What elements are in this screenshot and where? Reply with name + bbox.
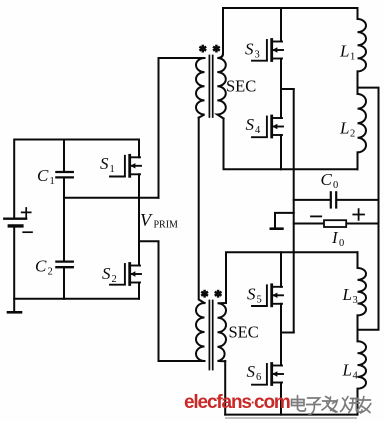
- wire S5 drain to lower rail: [280, 252, 282, 286]
- wire S5 source to S6 drain: [280, 304, 282, 366]
- wire bottom rail ghost shadow: [225, 417, 357, 419]
- svg-text:0: 0: [333, 180, 338, 191]
- transistor S5: [252, 285, 283, 306]
- svg-text:2: 2: [350, 129, 355, 140]
- transistor S6: [252, 364, 283, 385]
- wire S4 drain: [280, 89, 282, 118]
- transformer T2 core: [209, 301, 212, 370]
- wire L4 bottom to bottom rail: [357, 389, 359, 415]
- transformer T1 primary winding: [196, 58, 205, 118]
- svg-text:4: 4: [255, 125, 261, 136]
- svg-text:2: 2: [112, 274, 117, 285]
- svg-text:5: 5: [257, 295, 262, 306]
- label plus output: [353, 209, 364, 220]
- svg-text:V: V: [140, 210, 153, 230]
- transformer T2 primary winding: [196, 303, 204, 361]
- svg-text:C: C: [321, 170, 333, 189]
- svg-text:S: S: [247, 285, 256, 304]
- wire T1 secondary bottom lead and mid rail: [224, 119, 358, 170]
- wire node to T1 primary top: [159, 58, 205, 198]
- transistor S4: [252, 116, 283, 137]
- battery Vin: [4, 208, 32, 232]
- svg-text:L: L: [339, 119, 349, 138]
- wire S1 source to node: [138, 174, 140, 197]
- wire L2 bottom to mid rail: [357, 152, 359, 169]
- wire battery plus lead and top-left rail: [14, 140, 139, 217]
- wire S5-S6 midpoint to center node: [281, 332, 294, 334]
- wire battery minus lead and bottom-left rail: [14, 228, 139, 299]
- svg-text:S: S: [246, 115, 255, 134]
- svg-text:L: L: [342, 285, 352, 304]
- wire L3 to L4: [357, 315, 359, 341]
- transformer T2 secondary winding: [218, 303, 227, 361]
- wire T2 primary bottom lead: [159, 360, 205, 362]
- capacitor C2: [56, 262, 72, 299]
- svg-text:3: 3: [255, 50, 260, 61]
- wire bottom rail: [225, 414, 357, 416]
- label minus output: [311, 215, 321, 217]
- transistor S1: [110, 155, 141, 176]
- inductor L4: [358, 341, 367, 388]
- svg-text:S: S: [102, 264, 111, 283]
- node VPRIM wire: [64, 197, 159, 199]
- ground terminal bottom-left: [8, 299, 21, 313]
- svg-text:S: S: [245, 40, 254, 59]
- wire L1 to L2: [357, 71, 359, 94]
- wire S2 source to bottom rail: [138, 283, 140, 299]
- inductor L1: [358, 8, 367, 71]
- wire right output rail: [358, 88, 379, 330]
- wire C1 to C2: [63, 198, 65, 261]
- svg-text:C: C: [37, 166, 49, 185]
- wire center vertical: [293, 89, 295, 333]
- svg-text:SEC: SEC: [226, 77, 256, 96]
- svg-text:1: 1: [350, 52, 355, 63]
- svg-text:3: 3: [353, 295, 358, 306]
- svg-text:2: 2: [48, 267, 53, 278]
- transistor S3: [252, 40, 283, 61]
- current source I0 box: [324, 220, 346, 227]
- capacitor C1: [56, 140, 72, 198]
- svg-text:0: 0: [339, 238, 344, 249]
- wire T1 secondary top lead and top rail: [223, 8, 358, 54]
- transformer T1 secondary winding: [217, 54, 225, 118]
- transformer T1 polarity dots: [199, 45, 206, 53]
- svg-text:L: L: [342, 361, 352, 380]
- wire T2 secondary top lead and lower rail: [226, 252, 358, 303]
- inductor L3: [358, 252, 367, 315]
- ground symbol output: [271, 213, 294, 229]
- svg-text:S: S: [247, 362, 256, 381]
- transformer T1 core: [209, 56, 212, 118]
- svg-text:4: 4: [353, 371, 359, 382]
- svg-text:S: S: [100, 154, 109, 173]
- wire T2 secondary bottom lead: [224, 361, 226, 415]
- svg-text:elecfans·com: elecfans·com: [184, 392, 290, 413]
- transformer T2 polarity dots: [201, 290, 208, 298]
- transistor S2: [110, 264, 141, 285]
- svg-text:6: 6: [256, 372, 261, 383]
- svg-text:I: I: [331, 228, 339, 247]
- svg-text:PRIM: PRIM: [154, 220, 179, 231]
- watermark chinese characters: [292, 396, 371, 415]
- wire node down to S2 drain: [138, 198, 140, 266]
- svg-text:1: 1: [110, 164, 115, 175]
- wire S3-S4 midpoint to center node: [281, 88, 294, 90]
- wire S3 drain to top rail: [280, 8, 282, 42]
- wire S4 source to mid rail: [280, 135, 282, 169]
- svg-text:1: 1: [50, 176, 55, 187]
- current source I0 wire: [294, 223, 379, 225]
- wire VPRIM branch to transformer T2 primary: [139, 241, 159, 361]
- wire S6 source to bottom rail: [280, 383, 282, 415]
- svg-text:L: L: [339, 42, 349, 61]
- wire T1 primary bottom to T2 primary top: [199, 118, 205, 303]
- wire S1 drain to top rail: [138, 140, 140, 158]
- svg-text:C: C: [35, 257, 47, 276]
- inductor L2: [358, 94, 367, 152]
- svg-text:SEC: SEC: [229, 323, 259, 342]
- wire S3 source to midpoint: [280, 59, 282, 90]
- capacitor C0: [294, 192, 379, 207]
